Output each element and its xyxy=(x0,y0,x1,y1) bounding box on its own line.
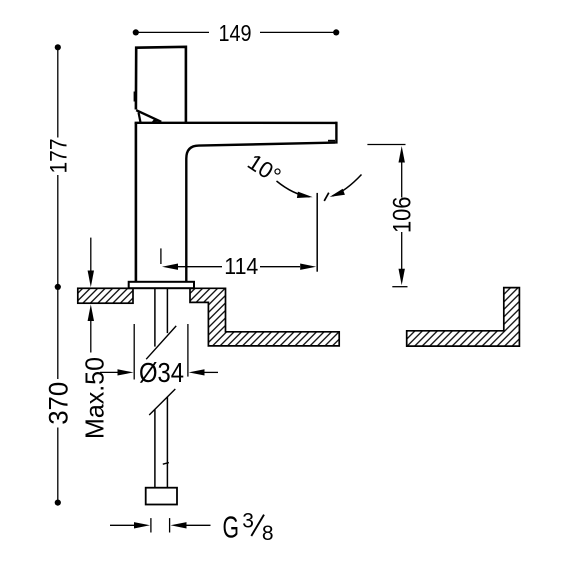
pipe break mark upper xyxy=(146,326,176,359)
svg-text:114: 114 xyxy=(224,253,258,279)
dimension 370 xyxy=(43,287,73,506)
aerator xyxy=(328,140,335,142)
svg-text:149: 149 xyxy=(219,20,252,46)
svg-text:G: G xyxy=(223,510,240,545)
dimension 149 xyxy=(133,20,340,46)
faucet body xyxy=(135,122,337,282)
svg-text:3: 3 xyxy=(242,509,254,532)
countertop right stepped section xyxy=(190,288,339,346)
countertop left section xyxy=(78,288,133,303)
water stream line xyxy=(316,193,318,272)
angle arc left xyxy=(277,181,313,198)
basin wall right section xyxy=(407,288,520,347)
svg-text:8: 8 xyxy=(262,522,274,545)
supply pipe upper segment xyxy=(155,289,168,347)
stream angle tick xyxy=(324,193,329,201)
dimension G 3/8 xyxy=(110,509,274,545)
dimension Max.50 xyxy=(79,238,109,439)
supply pipe lower segment xyxy=(155,397,168,488)
svg-text:370: 370 xyxy=(43,382,73,425)
base flange xyxy=(129,282,194,288)
svg-text:106: 106 xyxy=(389,197,417,234)
faucet handle xyxy=(135,47,186,123)
pipe tick xyxy=(163,463,169,465)
angle arc right xyxy=(330,175,362,197)
dimension 106 xyxy=(367,145,416,287)
dimension 177 xyxy=(45,44,72,290)
svg-text:Ø34: Ø34 xyxy=(139,357,184,388)
inlet connector xyxy=(146,488,177,505)
dimension diameter 34 xyxy=(100,324,218,388)
handle lever xyxy=(136,110,161,122)
pipe break mark lower xyxy=(149,389,175,415)
svg-text:177: 177 xyxy=(45,139,72,174)
svg-text:Max.50: Max.50 xyxy=(79,357,109,439)
dimension 114 xyxy=(161,248,316,279)
